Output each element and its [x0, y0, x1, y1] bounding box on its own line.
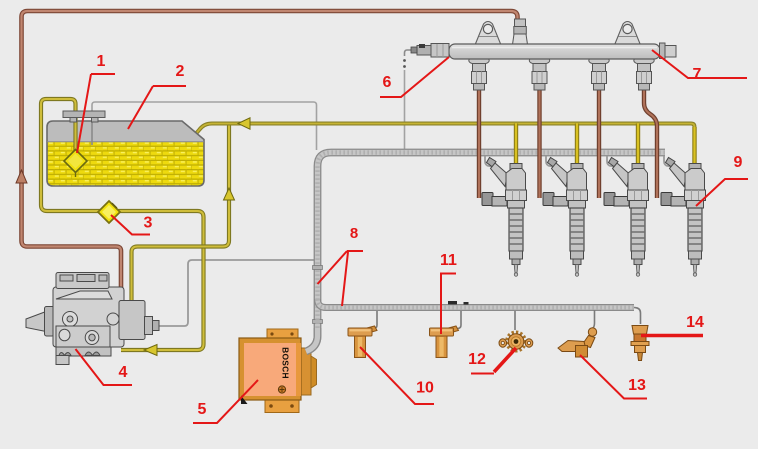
label 7 [652, 50, 747, 83]
svg-text:14: 14 [686, 314, 704, 331]
rail body [449, 44, 660, 59]
svg-text:BOSCH: BOSCH [281, 347, 291, 379]
svg-text:3: 3 [144, 215, 153, 232]
pipe: brown rail->injector 1 [477, 90, 481, 198]
rail outlet 4 [634, 56, 654, 90]
label 2 [128, 63, 186, 129]
fuel rail (item 7) [411, 19, 676, 90]
rail inlet fitting on top [515, 19, 526, 27]
wire: rail pressure sensor lead (dotted then solid) [405, 50, 413, 56]
knock sensor (item 14) [631, 326, 649, 361]
injector 1 [482, 158, 527, 277]
svg-text:7: 7 [693, 66, 702, 83]
injector 3 [604, 158, 649, 277]
wire: sensor 14 drop (harness end) [634, 308, 641, 325]
wire: tank level sender to harness (thin gray) [92, 102, 317, 150]
label 4 [76, 349, 133, 385]
arrow left on return line [238, 118, 250, 129]
label 10 [360, 347, 434, 404]
svg-text:12: 12 [468, 351, 486, 368]
svg-text:1: 1 [97, 53, 106, 70]
high pressure pump (item 4) [26, 273, 159, 365]
label 12 [468, 348, 516, 374]
rail outlet 3 [589, 56, 609, 90]
crankshaft sensor (item 12) [499, 332, 533, 350]
arrow up on HP supply [16, 170, 27, 183]
label 5 [193, 380, 258, 423]
arrow into pump inlet [144, 345, 157, 356]
label 11 [440, 252, 457, 334]
rail end cap right [660, 43, 666, 59]
wire: sensor 13 drop [593, 310, 595, 329]
arrow up on pump return [224, 188, 235, 200]
svg-text:11: 11 [440, 252, 457, 269]
wire: sensor 11 drop [452, 311, 461, 329]
injector 4 [661, 158, 706, 277]
rail outlet 2 [529, 56, 549, 90]
label 1 [77, 53, 115, 153]
label 8 [318, 225, 364, 306]
harness clamp seam 2 [313, 320, 323, 324]
label 3 [111, 215, 153, 235]
svg-text:5: 5 [198, 401, 207, 418]
pipe: brown HP pump to rail [22, 11, 518, 305]
pipe: olive injector return line to tank [194, 124, 695, 168]
injector 2 [543, 158, 588, 277]
pipe: brown rail->injector 4 (with jog) [644, 90, 657, 198]
svg-text:8: 8 [350, 225, 358, 242]
harness tube end at ECU connector [306, 328, 318, 352]
pipe: olive pump return up to return line [132, 124, 230, 309]
tank filler cap [63, 111, 105, 118]
wiring harness: main trunk to ECU [306, 153, 665, 352]
harness clamp seam [313, 266, 323, 270]
wire: sensor 10 drop [369, 311, 377, 329]
ECU (item 5) [239, 329, 317, 413]
svg-text:6: 6 [383, 74, 392, 91]
svg-text:4: 4 [119, 364, 128, 381]
pipe: olive supply tank->filter->pump inlet [41, 99, 204, 350]
label 13 [580, 355, 647, 399]
pipe: brown rail->injector 2 [537, 90, 541, 198]
wire: sensor 12 drop [514, 311, 516, 330]
rail mounting ear left [475, 22, 501, 46]
pipe segment visible inside tank [73, 121, 77, 151]
rail mounting ear right [615, 22, 641, 46]
svg-text:10: 10 [416, 380, 434, 397]
svg-text:9: 9 [734, 154, 743, 171]
harness clips [448, 301, 457, 304]
fuel filter (item 3) [98, 201, 120, 223]
sender wire segment inside tank [91, 121, 93, 145]
wiring harness: sensor branch [318, 299, 635, 308]
wire: pump lead to harness [157, 260, 314, 326]
camshaft sensor (item 13) [558, 328, 597, 357]
wire: injector leads from harness [485, 156, 492, 167]
label 14 [641, 314, 704, 336]
rail outlet 1 [469, 56, 489, 90]
svg-text:2: 2 [176, 63, 185, 80]
label 9 [696, 154, 748, 206]
fuel tank [47, 121, 204, 186]
pipe: injector return stems (bright yellow) [514, 124, 518, 168]
coolant temp sensor (item 10) [348, 326, 377, 358]
label 6 [380, 57, 449, 97]
rail pressure sensor left end (item 6) [431, 44, 449, 58]
fuel pickup strainer (item 1) [75, 172, 77, 178]
pipe: brown rail->injector 3 [597, 90, 601, 198]
svg-text:13: 13 [628, 377, 646, 394]
fuel temp sensor (item 11) [430, 326, 459, 358]
